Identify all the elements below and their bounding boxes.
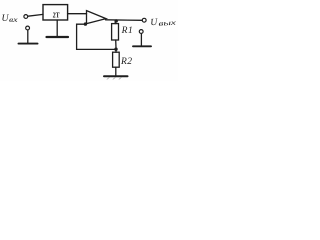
- svg-text:вых: вых: [158, 19, 177, 28]
- resistor R2: [113, 52, 120, 67]
- wire R1 to divider node: [115, 40, 117, 48]
- wire divider node to R2: [115, 51, 117, 53]
- wire feedback loop: [77, 24, 116, 49]
- block 2T: [43, 5, 68, 20]
- svg-text:вх: вх: [9, 16, 19, 24]
- wire lower terminal to ground: [27, 30, 29, 43]
- ground (2T block): [47, 36, 69, 38]
- input terminal lower: [26, 26, 30, 30]
- wire 2T to ground: [56, 20, 58, 36]
- node Uвых label: [150, 16, 177, 28]
- junction (inverting input): [84, 22, 87, 25]
- svg-text:R1: R1: [121, 26, 134, 36]
- junction (output node): [115, 19, 118, 22]
- output terminal upper: [142, 18, 146, 22]
- wire 2T to op-amp: [68, 13, 87, 15]
- wire R2 to ground: [115, 67, 117, 75]
- ground (output): [133, 45, 151, 47]
- resistor R1: [112, 24, 119, 40]
- output terminal lower: [139, 30, 143, 34]
- wire input to 2T box: [28, 14, 43, 16]
- input terminal upper: [24, 15, 28, 19]
- ground (R2): [104, 75, 128, 77]
- op-amp U1: [87, 11, 107, 24]
- junction (divider node): [114, 48, 117, 51]
- wire op-amp output: [106, 19, 143, 22]
- ground (input): [19, 43, 38, 45]
- wire output node to R1: [114, 21, 116, 24]
- svg-text:2Т: 2Т: [53, 11, 60, 19]
- svg-text:R2: R2: [120, 57, 132, 67]
- wire lower output terminal to ground: [140, 34, 142, 46]
- node Uвх label: [2, 14, 19, 24]
